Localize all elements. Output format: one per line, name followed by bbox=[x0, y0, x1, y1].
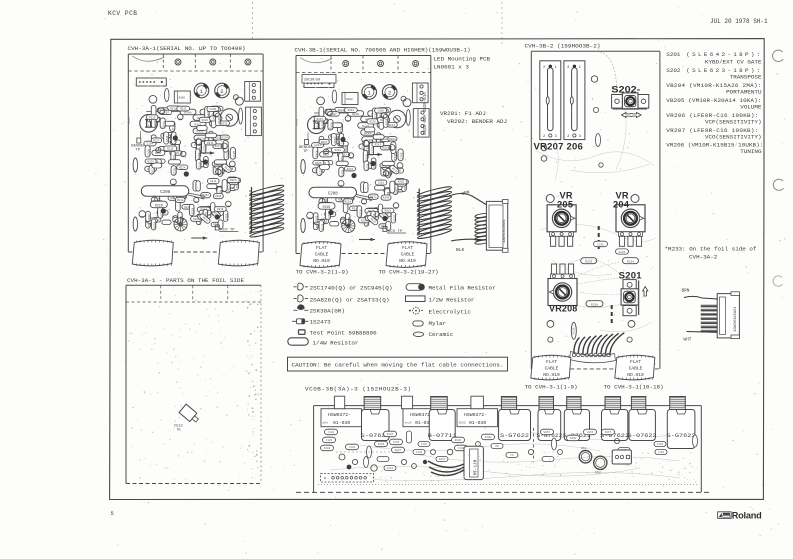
jack J2 B-07711 bbox=[429, 410, 455, 441]
potentiometer VR205 bbox=[547, 205, 576, 232]
svg-text:TO CVH-3-1(1-9): TO CVH-3-1(1-9) bbox=[525, 384, 578, 391]
svg-text:R102: R102 bbox=[324, 447, 331, 450]
svg-text:3: 3 bbox=[579, 135, 581, 139]
svg-text:TO CVH-3-1(10-18): TO CVH-3-1(10-18) bbox=[604, 384, 664, 391]
small parts between pots bbox=[594, 241, 608, 247]
fold mark line top left bbox=[252, 2, 254, 39]
indicator lamp WS2 bbox=[579, 451, 591, 463]
switch HSW0372 number 3 bbox=[457, 409, 498, 427]
capacitor stadium right bbox=[623, 258, 639, 264]
svg-text:R105: R105 bbox=[378, 443, 385, 446]
PCB2 wire fan to connector bbox=[475, 213, 490, 245]
svg-text:L107: L107 bbox=[421, 443, 428, 446]
Roland logo icon bbox=[718, 512, 732, 519]
dash mark between pots bbox=[598, 226, 600, 249]
connector block 12W31012A01 bbox=[486, 200, 508, 253]
svg-text:S201: S201 bbox=[619, 271, 642, 281]
svg-text:HSW0372-: HSW0372- bbox=[328, 412, 351, 418]
svg-text:2SK30A(GR): 2SK30A(GR) bbox=[310, 308, 345, 315]
svg-text:KYBD/EXT CV GATE: KYBD/EXT CV GATE bbox=[705, 59, 762, 66]
svg-text:WS7: WS7 bbox=[581, 447, 587, 450]
legend test point icon bbox=[299, 330, 306, 335]
svg-text:S202: S202 bbox=[666, 67, 681, 74]
connector strip with holes bottom left bbox=[321, 474, 374, 483]
svg-text:R233: R233 bbox=[585, 260, 592, 263]
foil side faint speckle texture bbox=[128, 291, 258, 480]
switch lever 1 bbox=[334, 396, 344, 409]
legend electrolytic icon bbox=[409, 307, 423, 314]
svg-text:VR207 206: VR207 206 bbox=[534, 141, 584, 151]
svg-text:R104: R104 bbox=[455, 439, 462, 442]
svg-text:C225: C225 bbox=[597, 243, 604, 246]
svg-text:Electrolytic: Electrolytic bbox=[429, 308, 472, 315]
svg-text:NO.H19: NO.H19 bbox=[399, 258, 416, 264]
svg-text:DS2: DS2 bbox=[595, 471, 601, 475]
svg-text:204: 204 bbox=[613, 199, 630, 209]
svg-text:#1: #1 bbox=[177, 428, 181, 432]
svg-text:S-G7622: S-G7622 bbox=[500, 432, 529, 439]
resistor R230 vertical bbox=[571, 322, 576, 339]
switch lever 3 bbox=[471, 396, 484, 409]
svg-text:01-030: 01-030 bbox=[469, 420, 486, 426]
switch HSW0372 number 1 bbox=[321, 409, 362, 427]
up arrow right of S201 bbox=[643, 287, 648, 297]
faint trace texture PCB3 bbox=[535, 90, 656, 332]
svg-text:C108: C108 bbox=[416, 451, 423, 454]
svg-text:WHT: WHT bbox=[684, 338, 692, 343]
svg-text:1: 1 bbox=[579, 66, 581, 70]
jack J3 S-G7622 bbox=[499, 410, 531, 441]
svg-text:BLK: BLK bbox=[456, 247, 465, 253]
small parts cluster bottom board left bbox=[321, 429, 698, 471]
svg-text:12W31012A01: 12W31012A01 bbox=[503, 219, 507, 243]
svg-text:C6: C6 bbox=[510, 454, 514, 457]
svg-text:C205: C205 bbox=[393, 441, 400, 444]
svg-text:R207: R207 bbox=[395, 449, 402, 452]
svg-text:VR202: BENDER ADJ: VR202: BENDER ADJ bbox=[447, 118, 507, 125]
svg-text:VR208: VR208 bbox=[549, 304, 578, 314]
svg-text:JUL 20 1978 SH-1: JUL 20 1978 SH-1 bbox=[710, 18, 768, 25]
PCB CVH-3A-1 board bbox=[128, 54, 284, 266]
bottom board faint trace texture bbox=[330, 430, 690, 481]
svg-text:C150: C150 bbox=[657, 443, 664, 446]
transformer MT-1JM bbox=[428, 446, 483, 479]
svg-text:Ceramic: Ceramic bbox=[429, 331, 454, 338]
svg-text:CVH-3A-2: CVH-3A-2 bbox=[689, 254, 718, 261]
svg-text:CABLE: CABLE bbox=[629, 366, 643, 372]
hole left of VR205 bbox=[546, 195, 554, 203]
svg-text:S-07622: S-07622 bbox=[628, 432, 657, 439]
jack J1 S-07622 bbox=[362, 410, 390, 441]
legend FET 2SK30A icon bbox=[294, 305, 309, 311]
svg-text:VR201: F1 ADJ: VR201: F1 ADJ bbox=[440, 110, 486, 117]
svg-text:TO CVH-3-2(1-9): TO CVH-3-2(1-9) bbox=[296, 269, 349, 276]
svg-text:2: 2 bbox=[567, 66, 569, 70]
svg-text:CABLE: CABLE bbox=[545, 366, 559, 372]
jack J5 S-07622 bbox=[564, 410, 589, 441]
svg-text:R205: R205 bbox=[387, 433, 394, 436]
slider VR207 bbox=[540, 61, 561, 140]
switch S201 body bbox=[621, 280, 639, 316]
svg-text:Mylar: Mylar bbox=[429, 320, 447, 327]
svg-text:CVH-3A-1(SERIAL NO. UP TO TOO4: CVH-3A-1(SERIAL NO. UP TO TOO499) bbox=[128, 45, 246, 52]
svg-text:W157: W157 bbox=[587, 431, 594, 434]
svg-text:CVH-3B-2 (159HOO3B-2): CVH-3B-2 (159HOO3B-2) bbox=[525, 43, 601, 50]
legend ceramic icon bbox=[413, 332, 423, 336]
faint dotted traces near S201 bbox=[560, 259, 620, 294]
potentiometer VR208 bbox=[548, 279, 577, 306]
legend diode 1S2473 icon bbox=[292, 319, 309, 324]
double arrow under S202 bbox=[622, 112, 642, 117]
svg-text:Test Point 59B88806: Test Point 59B88806 bbox=[310, 329, 378, 336]
svg-text:R230: R230 bbox=[573, 327, 576, 334]
svg-text:R157: R157 bbox=[605, 431, 612, 434]
bottom board outline bbox=[296, 406, 710, 493]
legend half watt resistor icon bbox=[406, 296, 426, 302]
switch HSW0372 number 2 bbox=[403, 409, 444, 427]
svg-text:VCO(SENSITIVITY): VCO(SENSITIVITY) bbox=[705, 134, 762, 141]
svg-text:TRANSPOSE: TRANSPOSE bbox=[730, 74, 762, 81]
dotted texture rows bottom board bbox=[335, 452, 700, 484]
svg-text:zea5: zea5 bbox=[405, 421, 412, 424]
svg-text:CABLE: CABLE bbox=[401, 252, 415, 258]
flat cable bottom left PCB3 bbox=[531, 355, 571, 380]
jack J4 S-G7622 bbox=[538, 410, 561, 441]
legend transistor 2SC1740 icon bbox=[294, 283, 309, 290]
svg-text:C104: C104 bbox=[349, 446, 356, 449]
svg-text:R6: R6 bbox=[495, 445, 499, 448]
svg-text:TO CVH-3-2(19-27): TO CVH-3-2(19-27) bbox=[379, 269, 439, 276]
flat cable bottom right PCB3 bbox=[615, 355, 655, 380]
capacitor stadium above VR208 bbox=[581, 258, 597, 264]
svg-text:S-G7622: S-G7622 bbox=[667, 432, 696, 439]
terminal block 3 hole bbox=[612, 450, 631, 464]
svg-text:CAUTION: Be careful when movin: CAUTION: Be careful when moving the flat… bbox=[292, 361, 504, 368]
svg-text:2SC1740(Q) or 2SC945(Q): 2SC1740(Q) or 2SC945(Q) bbox=[310, 284, 393, 291]
resistor R228 bbox=[586, 301, 603, 307]
svg-text:TUNING: TUNING bbox=[740, 148, 762, 155]
right margin connector comb and block bbox=[684, 292, 740, 339]
svg-text:5: 5 bbox=[111, 510, 114, 517]
svg-text:01-030: 01-030 bbox=[333, 420, 350, 426]
dash mark below S201 bbox=[611, 305, 613, 324]
PCB CVH-3B-1 board bbox=[296, 56, 452, 268]
svg-text:FLAT: FLAT bbox=[630, 359, 641, 365]
svg-text:R234: R234 bbox=[627, 260, 634, 263]
svg-text:205: 205 bbox=[557, 199, 573, 209]
svg-text:KCV PCB: KCV PCB bbox=[108, 10, 138, 17]
svg-text:Roland: Roland bbox=[732, 511, 762, 521]
svg-text:VCF(SENSITIVITY): VCF(SENSITIVITY) bbox=[705, 119, 762, 126]
svg-text:NO.H19: NO.H19 bbox=[627, 372, 644, 378]
svg-text:S201: S201 bbox=[666, 51, 681, 58]
wire BLK to connector bbox=[451, 239, 486, 241]
registration mark arc 2 bbox=[773, 179, 783, 190]
svg-text:FLAT: FLAT bbox=[402, 245, 413, 251]
svg-text:C110: C110 bbox=[387, 467, 394, 470]
legend mylar icon bbox=[413, 321, 423, 326]
svg-text:2SC30/50: 2SC30/50 bbox=[304, 78, 320, 83]
svg-text:CABLE: CABLE bbox=[315, 252, 329, 258]
switch S202 body bbox=[612, 93, 649, 109]
indicator lamp DS2 bbox=[594, 456, 607, 469]
svg-text:1/4W Resistor: 1/4W Resistor bbox=[313, 340, 359, 347]
svg-text:R10W: R10W bbox=[485, 436, 492, 439]
svg-text:*R233: On the foil side of: *R233: On the foil side of bbox=[665, 246, 757, 253]
registration mark arc 3 bbox=[773, 276, 782, 286]
svg-text:1657: 1657 bbox=[439, 458, 446, 461]
page outer border bbox=[110, 39, 765, 500]
svg-text:VCOB-3B(3A)-3 (152HOU2B-3): VCOB-3B(3A)-3 (152HOU2B-3) bbox=[305, 386, 411, 393]
svg-text:3: 3 bbox=[555, 135, 557, 139]
mounting holes PCB3 bbox=[541, 76, 635, 342]
svg-text:CVH-3A-1 - PARTS ON THE FOIL S: CVH-3A-1 - PARTS ON THE FOIL SIDE bbox=[127, 277, 244, 284]
svg-text:NO.H19: NO.H19 bbox=[543, 372, 560, 378]
svg-text:VOLUME: VOLUME bbox=[740, 104, 762, 111]
switch lever 2 bbox=[402, 396, 413, 409]
svg-text:5928-05A 5928-01A: 5928-05A 5928-01A bbox=[424, 92, 428, 135]
svg-text:1: 1 bbox=[555, 66, 557, 70]
svg-text:SD92: SD92 bbox=[459, 421, 466, 424]
svg-text:FLAT: FLAT bbox=[546, 359, 557, 365]
caution box bbox=[288, 357, 508, 371]
legend 1/4W resistor icon bbox=[288, 338, 309, 345]
registration mark arc 1 bbox=[773, 50, 783, 61]
foil side board outline bbox=[126, 285, 261, 483]
PCB3 wire fan flat cable wires bbox=[570, 333, 625, 363]
PCB3 speckle texture bbox=[534, 54, 658, 365]
slider VR206 bbox=[564, 61, 585, 140]
PCB CVH-3B-2 board outline bbox=[531, 51, 660, 369]
svg-text:L152: L152 bbox=[658, 451, 665, 454]
svg-text:CVH-3B-1(SERIAL NO. 700500 AND: CVH-3B-1(SERIAL NO. 700500 AND HIGHER)(1… bbox=[295, 47, 471, 54]
jack J6 S-07622 bbox=[602, 410, 628, 441]
svg-text:R225: R225 bbox=[619, 251, 626, 254]
hole right of VR204 bbox=[631, 195, 639, 203]
jack J8 S-G7622 tall bbox=[667, 410, 695, 449]
svg-text:2SA826(Q) or 2SAT33(Q): 2SA826(Q) or 2SAT33(Q) bbox=[310, 296, 390, 303]
svg-text:Metal Film Resistor: Metal Film Resistor bbox=[429, 284, 496, 291]
svg-text:MT-1JM: MT-1JM bbox=[475, 459, 479, 475]
svg-text:1/2W Resistor: 1/2W Resistor bbox=[429, 297, 475, 304]
svg-text:LED Mounting PCB: LED Mounting PCB bbox=[434, 56, 491, 63]
svg-text:LN0601 x 3: LN0601 x 3 bbox=[434, 64, 470, 71]
fold mark line top right bbox=[501, 2, 503, 46]
svg-text:R228: R228 bbox=[591, 303, 598, 306]
svg-text:2: 2 bbox=[543, 66, 545, 70]
capacitor C512 on foil side bbox=[179, 404, 201, 425]
svg-text:12WCH0920A01: 12WCH0920A01 bbox=[734, 307, 738, 332]
corner trace curve PCB3 bbox=[600, 52, 617, 112]
svg-text:605W: 605W bbox=[570, 437, 577, 440]
svg-text:W157: W157 bbox=[544, 431, 551, 434]
legend transistor 2SA826 icon bbox=[294, 295, 309, 302]
svg-text:d9a: d9a bbox=[323, 420, 329, 424]
svg-text:BRN: BRN bbox=[682, 289, 690, 294]
svg-text:2: 2 bbox=[543, 135, 545, 139]
svg-text:C103: C103 bbox=[326, 439, 333, 442]
svg-text:1S2473: 1S2473 bbox=[310, 319, 332, 326]
svg-text:#: # bbox=[324, 478, 326, 482]
svg-text:NO.H19: NO.H19 bbox=[313, 258, 330, 264]
jack J7 S-07622 bbox=[629, 410, 655, 441]
potentiometer VR204 bbox=[616, 205, 645, 232]
svg-text:HSW0372-: HSW0372- bbox=[464, 412, 487, 418]
svg-text:C102: C102 bbox=[328, 431, 335, 434]
svg-text:FLAT: FLAT bbox=[316, 245, 327, 251]
PCB CVH-3B-1 part number box 2SC30A bbox=[302, 75, 336, 84]
svg-text:PORTAMENTU: PORTAMENTU bbox=[726, 89, 762, 96]
legend metal film resistor icon bbox=[406, 284, 425, 291]
svg-text:2: 2 bbox=[567, 135, 569, 139]
wire BRN to connector bbox=[449, 194, 487, 206]
